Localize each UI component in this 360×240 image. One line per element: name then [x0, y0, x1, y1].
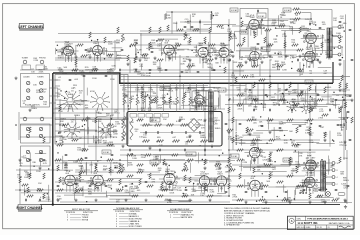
resistor: [147, 185, 154, 187]
svg-text:7: 7: [316, 185, 317, 187]
svg-text:6.8K: 6.8K: [112, 65, 117, 67]
part value label: [249, 96, 253, 100]
wire junction: [310, 18, 312, 20]
tube socket wires: [193, 53, 213, 64]
svg-text:56K: 56K: [23, 158, 27, 160]
wire rail y150b: [120, 149, 222, 151]
part value label: [148, 44, 153, 48]
resistor: [172, 154, 179, 156]
svg-text:2.2M: 2.2M: [225, 167, 230, 169]
part value label: [70, 50, 75, 54]
wire: [97, 41, 99, 53]
part value label: [25, 173, 30, 177]
wire junction: [256, 201, 257, 202]
ground: [218, 167, 221, 170]
part value label: [282, 34, 287, 38]
part value label: [96, 112, 100, 114]
part value label: [68, 92, 74, 96]
part value label: [185, 19, 190, 23]
part value label: [79, 71, 84, 73]
part value label: [79, 90, 84, 94]
wire filter bank stub: [282, 103, 286, 105]
wire junction: [343, 125, 344, 126]
wire junction: [309, 149, 311, 151]
part value label: [157, 66, 161, 70]
svg-text:8: 8: [224, 59, 225, 61]
ground: [338, 63, 341, 66]
tube V11 12AX7 (right preamp a): [65, 175, 76, 186]
capacitor: [343, 99, 346, 100]
part value label: [195, 28, 199, 30]
trimmer level control: [40, 89, 43, 92]
svg-text:7: 7: [261, 188, 262, 190]
wire junction: [310, 96, 311, 97]
ground: [323, 201, 326, 204]
boxed part label: [102, 150, 111, 154]
wire junction: [163, 162, 164, 163]
svg-text:5: 5: [205, 97, 206, 99]
svg-text:7: 7: [76, 183, 77, 185]
part value label: [75, 183, 80, 187]
part value label: [330, 165, 335, 169]
wire: [64, 194, 84, 196]
wire rail y30: [140, 30, 212, 32]
svg-text:33K: 33K: [24, 171, 28, 173]
resistor: [207, 59, 214, 61]
svg-text:270K: 270K: [146, 75, 151, 77]
svg-text:10K: 10K: [157, 141, 161, 143]
tube socket wires: [190, 100, 209, 111]
ground: [338, 89, 341, 92]
wire junction: [320, 54, 321, 55]
jack J3 right tuner input: [23, 117, 27, 121]
part value label: [218, 55, 223, 59]
ground: [14, 77, 17, 80]
svg-text:100K: 100K: [58, 70, 63, 72]
svg-text:7: 7: [209, 55, 210, 57]
capacitor: [249, 59, 250, 62]
wire: [254, 170, 287, 172]
part value label: [113, 130, 118, 134]
svg-text:2.2M: 2.2M: [203, 56, 208, 58]
part value label: [107, 132, 112, 136]
wire junction: [283, 100, 284, 101]
wire rail y18: [302, 12, 311, 14]
svg-text:47K: 47K: [151, 181, 155, 183]
svg-text:220K: 220K: [238, 108, 243, 110]
wire junction: [128, 105, 129, 106]
svg-text:1/2 12AX7: 1/2 12AX7: [307, 157, 316, 160]
resistor: [237, 44, 244, 46]
svg-text:120K: 120K: [141, 110, 146, 112]
part value label: [58, 55, 63, 59]
wire: [97, 115, 107, 117]
part value label: [66, 42, 71, 46]
svg-text:47K: 47K: [82, 151, 86, 153]
resistor: [239, 173, 241, 179]
resistor: [279, 99, 286, 101]
part value label: [90, 181, 95, 185]
part value label: [151, 40, 156, 44]
svg-text:6U8: 6U8: [250, 145, 253, 147]
transformer T2 (right output transformer): [321, 161, 326, 191]
part value label: [331, 166, 335, 168]
resistor: [152, 164, 159, 166]
part value label: [62, 137, 67, 141]
svg-text:12AX7: 12AX7: [195, 92, 201, 95]
part value label: [57, 50, 62, 54]
svg-text:5: 5: [176, 177, 177, 179]
wire junction: [332, 35, 333, 36]
wire junction: [264, 163, 265, 164]
wire junction: [315, 24, 316, 25]
trimmer level control right lower: [26, 150, 29, 153]
wire: [125, 91, 155, 93]
wire junction: [171, 11, 173, 13]
resistor: [127, 55, 129, 61]
wire: [83, 128, 85, 139]
part value label: [338, 109, 343, 113]
part value label: [326, 58, 331, 60]
wire junction: [170, 182, 171, 183]
svg-text:8: 8: [221, 188, 222, 190]
part value label: [342, 89, 347, 93]
svg-text:270K: 270K: [79, 104, 84, 106]
svg-text:120K: 120K: [153, 159, 158, 161]
wire: [115, 57, 129, 59]
wire: [75, 115, 77, 129]
part value label: [342, 145, 347, 147]
wire pot to shield box: [176, 105, 178, 112]
part value label: [257, 25, 261, 27]
svg-text:120K: 120K: [337, 135, 342, 137]
part value label: [216, 167, 221, 171]
capacitor: [253, 109, 254, 112]
tube type label: [307, 156, 316, 160]
wire: [239, 143, 272, 145]
wire: [85, 196, 108, 198]
part value label: [73, 85, 78, 89]
wire rail y120: [228, 119, 340, 121]
part value label: [88, 189, 93, 193]
resistor: [246, 127, 248, 133]
capacitor: [319, 27, 322, 28]
wire row y160: [55, 160, 235, 162]
wire: [294, 190, 296, 201]
resistor tone divider 10: [182, 97, 184, 104]
part value label: [310, 133, 315, 137]
wire junction: [213, 15, 214, 16]
part value label: [277, 67, 282, 71]
part value label: [336, 95, 340, 97]
tube pin numbers: [303, 35, 319, 47]
resistor: [95, 183, 97, 189]
part value label: [158, 68, 163, 72]
part value label: [305, 19, 310, 21]
shield box tone network: [127, 112, 222, 147]
title block H.H. Scott: [288, 216, 354, 229]
ground: [94, 141, 97, 144]
wire mid rail f: [53, 112, 120, 114]
wire junction: [298, 144, 299, 145]
capacitor: [204, 149, 205, 152]
wire rail y33: [58, 33, 235, 35]
wire: [305, 179, 307, 191]
svg-text:56K: 56K: [158, 170, 162, 172]
selenium rectifier bridge CR1: [188, 119, 201, 132]
part value label: [117, 55, 122, 59]
wire: [108, 178, 142, 180]
wire junction: [188, 161, 189, 162]
wire: [135, 48, 137, 59]
wire row y190: [15, 189, 100, 191]
wire junction: [274, 161, 275, 162]
switch contact: [343, 117, 346, 125]
wire: [329, 131, 331, 147]
part value label: [64, 48, 69, 52]
part value label: [153, 93, 157, 95]
capacitor: [319, 125, 322, 126]
part value label: [103, 170, 107, 172]
svg-text:15K: 15K: [200, 195, 204, 197]
wire: [232, 97, 234, 103]
svg-text:10K: 10K: [254, 109, 258, 111]
tube V14 6U8 (right voltage amp): [199, 176, 209, 186]
svg-text:220K: 220K: [186, 137, 191, 139]
wire rail y85: [120, 85, 208, 87]
resistor: [322, 114, 329, 116]
wire junction: [292, 61, 293, 62]
part value label: [225, 172, 231, 174]
part value label: [294, 90, 299, 94]
part value label: [336, 198, 340, 200]
wire: [181, 104, 208, 106]
wire junction: [95, 136, 97, 138]
svg-text:56K: 56K: [134, 42, 138, 44]
notes ganged controls: [224, 207, 271, 226]
part value label: [322, 22, 327, 26]
wire: [267, 122, 286, 124]
resistor: [141, 92, 143, 98]
part value label: [340, 171, 345, 175]
svg-text:56K: 56K: [108, 187, 112, 189]
wire: [40, 158, 42, 166]
svg-text:270K: 270K: [129, 122, 134, 124]
level-set box left channel: [21, 74, 50, 108]
part value label: [251, 140, 256, 144]
part value label: [114, 110, 119, 114]
part value label: [79, 104, 84, 106]
capacitor: [319, 189, 322, 190]
svg-text:47K: 47K: [148, 46, 152, 48]
svg-text:6.3V AC: 6.3V AC: [231, 155, 238, 158]
wire: [211, 195, 222, 197]
boxed part label: [240, 30, 248, 34]
wire junction: [57, 152, 58, 153]
wire row y125: [20, 124, 52, 126]
wire pot drop: [182, 83, 184, 97]
wire rail y140: [230, 139, 320, 141]
svg-text:47K: 47K: [243, 99, 247, 101]
svg-text:8: 8: [309, 190, 310, 192]
part value label: [203, 62, 208, 64]
part value label: [289, 161, 294, 165]
part value label: [330, 102, 335, 106]
wire junction: [48, 168, 49, 169]
capacitor: [191, 26, 194, 27]
resistor: [204, 37, 206, 43]
capacitor: [105, 185, 108, 186]
ground: [268, 131, 271, 134]
svg-text:120K: 120K: [137, 74, 142, 76]
resistor tone divider 12: [196, 97, 198, 104]
capacitor: [257, 10, 258, 13]
svg-text:8: 8: [203, 59, 204, 61]
part value label: [325, 87, 331, 89]
wire pot drop: [169, 83, 171, 97]
wire junction: [130, 46, 131, 47]
wire: [285, 93, 319, 95]
part value label: [85, 105, 90, 109]
part value label: [305, 120, 310, 124]
wire: [204, 24, 237, 26]
part value label: [333, 18, 338, 22]
switch S2 equalization wafer A: [64, 123, 80, 139]
junction heavy bottom: [52, 203, 54, 205]
part value label: [108, 185, 113, 189]
part value label: [75, 192, 80, 194]
resistor: [193, 29, 200, 31]
part value label: [343, 186, 348, 190]
resistor: [339, 82, 341, 88]
part value label: [212, 52, 217, 56]
wire: [112, 47, 123, 49]
wire switch feed 2: [55, 85, 60, 87]
wire row y165: [232, 164, 303, 166]
part value label: [150, 46, 155, 50]
wire: [302, 170, 330, 172]
tube socket wires: [301, 165, 322, 176]
svg-text:56K: 56K: [215, 63, 219, 65]
wire right mid 3: [225, 104, 340, 106]
resistor: [242, 75, 249, 77]
svg-text:220K: 220K: [314, 167, 319, 169]
resistor: [228, 107, 230, 113]
wire: [241, 139, 243, 145]
part value label: [213, 107, 218, 111]
wire: [287, 190, 289, 199]
wire: [153, 154, 174, 156]
capacitor: [205, 47, 208, 48]
part value label: [318, 187, 323, 191]
tube socket wires: [245, 186, 266, 197]
wire junction: [342, 57, 343, 58]
tube pin numbers: [214, 178, 230, 190]
svg-text:220K: 220K: [128, 165, 133, 167]
part value label: [143, 137, 147, 139]
svg-text:6.3V AC: 6.3V AC: [103, 151, 110, 154]
wire: [23, 187, 25, 195]
part value label: [21, 157, 25, 159]
wire row y150: [230, 149, 330, 151]
wire filter bank drop: [239, 84, 241, 104]
wire: [198, 89, 210, 91]
resistor: [92, 69, 99, 71]
svg-text:220K: 220K: [271, 99, 276, 101]
tube pin numbers: [162, 176, 178, 189]
wire: [263, 89, 265, 111]
wire junction: [229, 98, 230, 99]
part value label: [187, 21, 192, 25]
svg-text:4.7K: 4.7K: [318, 190, 323, 192]
text EQUALIZATION caption: [25, 104, 40, 107]
svg-text:4.7K: 4.7K: [165, 174, 170, 176]
wire: [291, 30, 310, 32]
tube pin numbers: [302, 179, 318, 191]
part value label: [309, 71, 313, 75]
part value label: [196, 90, 201, 94]
wire junction: [228, 175, 230, 177]
tube V19 7591 (right output 2): [305, 177, 316, 188]
resistor: [43, 137, 45, 143]
part value label: [135, 88, 140, 92]
part value label: [278, 89, 282, 93]
part value label: [314, 189, 319, 193]
wire rail y35: [140, 34, 190, 36]
resistor: [293, 8, 300, 10]
part value label: [171, 171, 176, 175]
ground: [203, 119, 206, 122]
part value label: [280, 97, 285, 101]
wire: [55, 48, 57, 54]
part value label: [93, 51, 98, 55]
tube socket wires: [244, 25, 264, 36]
wire rail y182: [55, 181, 175, 183]
trimmer level control right lower: [26, 158, 29, 161]
resistor: [107, 179, 114, 181]
wire junction: [283, 95, 284, 96]
wire: [281, 30, 299, 32]
svg-text:120K: 120K: [196, 95, 201, 97]
part value label: [150, 100, 155, 104]
boxed part label: [305, 80, 313, 84]
wire: [195, 160, 206, 162]
ground: [144, 199, 147, 202]
ground: [244, 201, 247, 204]
wire junction: [91, 40, 92, 41]
tube V18 7591 (right output 1): [306, 160, 317, 171]
wire: [109, 198, 131, 200]
part value label: [58, 77, 62, 79]
svg-text:CLEAN: CLEAN: [23, 76, 30, 79]
boxed part label: [230, 154, 239, 158]
svg-text:8: 8: [254, 160, 255, 162]
resistor: [163, 159, 165, 165]
part value label: [125, 190, 130, 194]
svg-text:15K: 15K: [171, 173, 175, 175]
wire junction: [41, 152, 42, 153]
svg-text:2.2M: 2.2M: [17, 177, 22, 179]
wire junction: [81, 158, 82, 159]
part value label: [132, 156, 137, 160]
svg-text:220K: 220K: [278, 56, 283, 58]
capacitor: [213, 69, 216, 70]
part value label: [201, 88, 206, 92]
wire rail y79: [120, 79, 340, 81]
svg-text:120K: 120K: [26, 191, 31, 193]
part value label: [143, 133, 148, 137]
svg-text:10K: 10K: [157, 46, 161, 48]
